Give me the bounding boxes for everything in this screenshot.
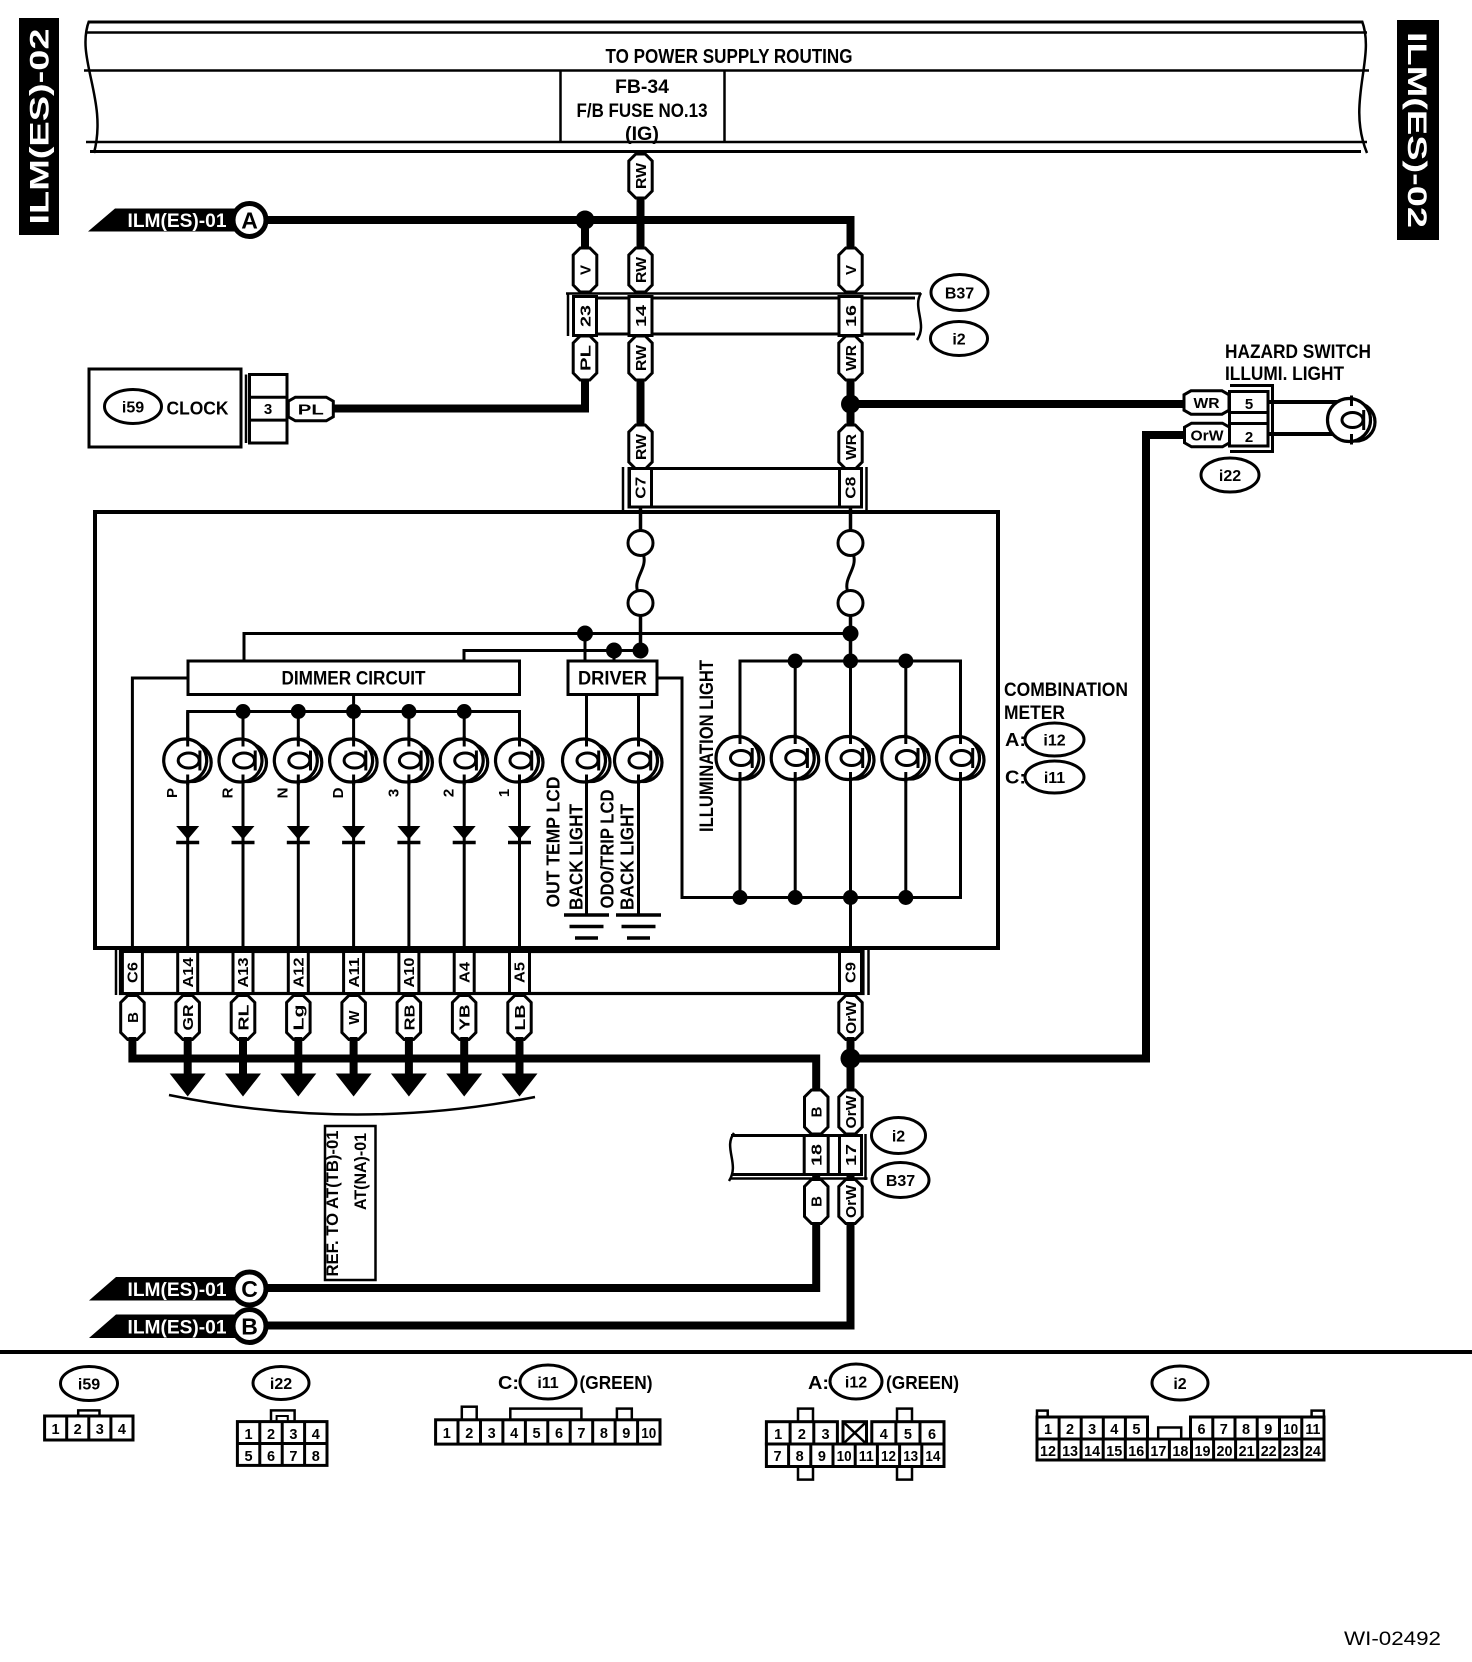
svg-text:9: 9 — [1264, 1422, 1272, 1438]
wire black bus to ILM(ES)-01 C — [132, 1037, 816, 1093]
connector i2 pinout — [1037, 1411, 1324, 1460]
wire YB stub — [462, 994, 466, 999]
wire dimmer lamp column D — [352, 712, 355, 954]
svg-text:ILLUMI. LIGHT: ILLUMI. LIGHT — [1225, 363, 1344, 385]
pin C7 — [630, 469, 652, 508]
wire left break column — [639, 507, 643, 531]
pin C9 — [840, 952, 862, 994]
wire right break column — [849, 507, 853, 531]
junction A/V — [576, 211, 595, 230]
wire illumination lamp column 905.8 — [904, 661, 907, 898]
svg-text:WI-02492: WI-02492 — [1344, 1629, 1441, 1650]
svg-text:16: 16 — [843, 305, 860, 327]
svg-text:F/B FUSE NO.13: F/B FUSE NO.13 — [577, 101, 708, 122]
connector i11 pinout — [436, 1407, 660, 1444]
ground out temp LCD — [564, 915, 609, 938]
wire label RB below band — [397, 996, 421, 1040]
svg-text:B: B — [241, 1314, 258, 1340]
wire RB stub — [407, 994, 411, 999]
wire label RW to pin 14 — [629, 248, 652, 292]
wire driver to LCD lamp 2 — [637, 695, 640, 916]
svg-text:PL: PL — [298, 402, 324, 419]
wire label V to pin 16 — [839, 248, 862, 292]
svg-text:13: 13 — [1062, 1444, 1078, 1460]
svg-text:17: 17 — [843, 1144, 860, 1166]
svg-text:8: 8 — [312, 1449, 320, 1465]
svg-text:OUT TEMP LCD: OUT TEMP LCD — [543, 777, 563, 908]
svg-text:FB-34: FB-34 — [615, 77, 669, 98]
svg-text:(GREEN): (GREEN) — [886, 1372, 959, 1393]
svg-text:LB: LB — [512, 1004, 529, 1030]
svg-text:i2: i2 — [892, 1128, 905, 1145]
svg-text:5: 5 — [904, 1427, 912, 1443]
svg-text:5: 5 — [1132, 1422, 1140, 1438]
svg-text:4: 4 — [1110, 1422, 1118, 1438]
wire RW from fuse FB-34 — [637, 150, 645, 158]
svg-text:21: 21 — [1239, 1444, 1255, 1460]
wire stub to driver 1 — [584, 634, 587, 662]
pin A14 — [178, 952, 198, 994]
svg-text:20: 20 — [1217, 1444, 1233, 1460]
wire label V to pin 23 — [573, 248, 597, 292]
wire dimmer lamp column P — [186, 712, 189, 954]
wire WR break to illumination bus — [849, 615, 853, 663]
wire label WR below pin 16 — [839, 336, 862, 380]
svg-text:C:: C: — [498, 1372, 519, 1393]
svg-text:C: C — [241, 1276, 258, 1302]
ref box REF. TO AT(TB)-01 AT(NA)-01 — [324, 1126, 376, 1280]
svg-text:WR: WR — [1194, 395, 1220, 412]
driver — [568, 661, 657, 695]
connector band C6-A5/C9 — [116, 949, 869, 995]
svg-text:DRIVER: DRIVER — [578, 669, 647, 690]
svg-text:A13: A13 — [236, 958, 252, 988]
connector ref i12 pinout label — [830, 1364, 882, 1399]
svg-text:4: 4 — [312, 1427, 320, 1443]
svg-text:5: 5 — [1245, 396, 1253, 413]
svg-text:14: 14 — [1084, 1444, 1100, 1460]
lamp illumination 4 — [882, 734, 930, 783]
wire label WR to C8 — [839, 425, 862, 469]
lamp hazard switch illumination — [1328, 396, 1376, 445]
connector ref B37 top — [931, 275, 988, 311]
inline break right — [838, 531, 863, 616]
svg-text:15: 15 — [1106, 1444, 1122, 1460]
svg-text:6: 6 — [555, 1426, 563, 1442]
connector band B37/i2 (pins 23/14/16) — [566, 293, 921, 340]
wire bus A to dimmer circuit — [244, 634, 851, 662]
svg-text:RW: RW — [633, 162, 650, 189]
lamp shift indicator P — [164, 736, 212, 785]
lamp shift indicator 1 — [496, 736, 544, 785]
svg-text:10: 10 — [1283, 1422, 1298, 1438]
band torn edge right — [917, 293, 921, 340]
wire label PL at clock — [288, 397, 333, 421]
svg-text:18: 18 — [809, 1144, 826, 1166]
svg-text:2: 2 — [74, 1422, 82, 1438]
wire RW break to driver bus — [639, 615, 643, 652]
svg-text:3: 3 — [1088, 1422, 1096, 1438]
svg-text:6: 6 — [1198, 1422, 1206, 1438]
wire stub to driver 2 — [613, 651, 616, 662]
pin C8 — [840, 469, 862, 508]
svg-text:ILLUMINATION LIGHT: ILLUMINATION LIGHT — [696, 660, 718, 832]
svg-text:14: 14 — [633, 304, 650, 327]
pin 16 — [839, 297, 862, 336]
pin A5 — [510, 952, 530, 994]
svg-text:1: 1 — [52, 1422, 60, 1438]
pin C6 — [122, 952, 142, 994]
wire dimmer lamp column N — [297, 712, 300, 954]
wire hazard pin 2 to bulb — [1268, 432, 1338, 436]
wire label RW to C7 — [629, 425, 652, 469]
lamp odo/trip LCD back light — [615, 736, 663, 785]
wire dimmer lamp bus — [188, 712, 520, 739]
connector i22 pinout — [237, 1410, 327, 1465]
svg-text:8: 8 — [796, 1449, 804, 1465]
wire label LB below band — [508, 996, 531, 1040]
connector ref i22 hazard — [1201, 458, 1259, 492]
combination meter box — [95, 512, 998, 948]
pin A13 — [233, 952, 253, 994]
page tab ILM(ES)-02 left — [19, 18, 59, 235]
dimmer circuit — [188, 661, 520, 695]
svg-text:WR: WR — [843, 434, 860, 460]
svg-text:1: 1 — [1044, 1422, 1052, 1438]
pin 17 — [840, 1136, 862, 1175]
wire A illumination feed — [266, 216, 849, 224]
svg-text:16: 16 — [1128, 1444, 1144, 1460]
svg-text:A:: A: — [808, 1372, 829, 1393]
svg-text:V: V — [843, 265, 860, 275]
svg-text:1: 1 — [443, 1426, 451, 1442]
svg-text:i12: i12 — [1043, 732, 1065, 749]
wire V left stub — [581, 220, 589, 252]
svg-text:A4: A4 — [457, 962, 473, 983]
wire dimmer lamp column 3 — [407, 712, 410, 954]
wire OrW stub below C9 — [849, 994, 853, 999]
svg-text:P: P — [164, 788, 181, 798]
svg-text:19: 19 — [1194, 1444, 1210, 1460]
svg-text:2: 2 — [1245, 429, 1253, 446]
hazard pin 5 — [1230, 392, 1269, 414]
wire illumination bottom bus — [740, 758, 961, 898]
wire arrow W to AT — [350, 1037, 358, 1076]
wire arrow LB to AT — [516, 1037, 524, 1076]
svg-text:3: 3 — [822, 1427, 830, 1443]
wire label WR at hazard — [1184, 391, 1229, 414]
diode D-P — [176, 826, 199, 843]
wire C8 column to C9 — [849, 898, 852, 954]
lamp illumination 2 — [771, 734, 819, 783]
svg-text:17: 17 — [1150, 1444, 1166, 1460]
svg-text:4: 4 — [880, 1427, 888, 1443]
wire PL from pin 23 — [581, 335, 589, 345]
svg-text:i59: i59 — [78, 1376, 100, 1393]
svg-text:23: 23 — [1283, 1444, 1299, 1460]
wire label RW below pin 14 — [629, 336, 652, 380]
wire label OrW above 17 — [839, 1090, 862, 1134]
svg-text:12: 12 — [881, 1449, 896, 1465]
svg-text:COMBINATION: COMBINATION — [1004, 680, 1128, 701]
wire label B above 18 — [805, 1090, 829, 1134]
wire hazard pin 5 to bulb — [1268, 400, 1338, 404]
lamp shift indicator 2 — [440, 736, 488, 785]
junction WR/hazard — [841, 395, 860, 414]
svg-text:YB: YB — [457, 1004, 474, 1030]
wire dimmer lamp column 1 — [518, 712, 521, 954]
svg-text:B37: B37 — [886, 1173, 915, 1190]
clock pin strip — [246, 375, 287, 444]
svg-text:TO POWER SUPPLY ROUTING: TO POWER SUPPLY ROUTING — [606, 45, 853, 68]
svg-text:RL: RL — [235, 1005, 252, 1031]
page tab ILM(ES)-02 right — [1397, 20, 1439, 240]
wire bus B to dimmer circuit — [464, 651, 641, 662]
svg-text:B: B — [809, 1106, 826, 1117]
lamp shift indicator N — [274, 736, 322, 785]
svg-text:10: 10 — [641, 1426, 656, 1442]
label COMBINATION METER — [1004, 680, 1128, 724]
svg-text:5: 5 — [245, 1449, 253, 1465]
svg-text:9: 9 — [622, 1426, 630, 1442]
connector band C7/C8 — [623, 467, 867, 512]
wire LB stub — [518, 994, 522, 999]
svg-text:C7: C7 — [634, 477, 650, 499]
diode D-3 — [397, 826, 420, 843]
svg-text:ILM(ES)-01: ILM(ES)-01 — [128, 211, 227, 232]
wire label RW fuse drop — [629, 154, 652, 198]
inline break left — [628, 531, 653, 616]
svg-text:1: 1 — [774, 1427, 782, 1443]
svg-text:9: 9 — [818, 1449, 826, 1465]
svg-text:OrW: OrW — [843, 1095, 860, 1129]
svg-text:23: 23 — [577, 305, 594, 327]
svg-text:(GREEN): (GREEN) — [580, 1372, 653, 1393]
wire label W below band — [342, 996, 366, 1040]
svg-text:7: 7 — [289, 1449, 297, 1465]
wire driver to LCD lamp 1 — [585, 695, 588, 916]
wire arrow YB to AT — [460, 1037, 468, 1076]
svg-text:OrW: OrW — [843, 1000, 860, 1034]
wire arrow RB to AT — [405, 1037, 413, 1076]
svg-text:2: 2 — [798, 1427, 806, 1443]
wire label GR below band — [176, 996, 200, 1040]
svg-text:1: 1 — [245, 1427, 253, 1443]
svg-text:CLOCK: CLOCK — [167, 398, 230, 419]
wire RW to connector pin 14 — [637, 194, 645, 252]
svg-text:BACK LIGHT: BACK LIGHT — [566, 804, 586, 910]
svg-text:Lg: Lg — [291, 1005, 308, 1031]
svg-text:1: 1 — [496, 789, 513, 797]
wire dimmer lamp column 2 — [463, 712, 466, 954]
svg-text:13: 13 — [903, 1449, 918, 1465]
svg-text:N: N — [275, 788, 292, 799]
svg-text:PL: PL — [577, 345, 594, 371]
svg-text:ILM(ES)-01: ILM(ES)-01 — [128, 1280, 227, 1301]
wire B pin18 to flag C — [264, 1175, 816, 1289]
svg-text:WR: WR — [843, 345, 860, 371]
pin A11 — [344, 952, 364, 994]
lamp out temp LCD back light — [563, 736, 611, 785]
svg-text:7: 7 — [1220, 1422, 1228, 1438]
svg-text:A5: A5 — [513, 962, 529, 983]
connector ref i12 meter — [1025, 723, 1084, 756]
svg-text:i59: i59 — [122, 399, 144, 416]
svg-text:DIMMER CIRCUIT: DIMMER CIRCUIT — [282, 669, 426, 690]
svg-text:B: B — [125, 1012, 142, 1023]
wire label OrW below C9 — [839, 996, 862, 1040]
svg-text:V: V — [577, 265, 594, 275]
svg-text:i22: i22 — [1219, 468, 1241, 485]
wire illumination lamp column 795.2 — [794, 661, 797, 898]
svg-text:3: 3 — [289, 1427, 297, 1443]
arrow group curve — [169, 1095, 535, 1115]
wire label OrW below 17 — [839, 1180, 862, 1224]
svg-text:4: 4 — [118, 1422, 126, 1438]
wire V right stub — [847, 220, 851, 252]
wire dimmer lamp column R — [242, 712, 245, 954]
svg-text:GR: GR — [180, 1004, 197, 1030]
wire label B below band — [121, 996, 145, 1040]
fuse FB-34 box — [561, 71, 725, 146]
svg-text:C:: C: — [1005, 767, 1026, 788]
flag ILM(ES)-01 C — [89, 1272, 266, 1305]
wire arrow Lg to AT — [294, 1037, 302, 1076]
connector ref i59 clock — [105, 390, 162, 424]
svg-text:11: 11 — [859, 1449, 874, 1465]
diode D-1 — [508, 826, 531, 843]
svg-text:RW: RW — [633, 344, 650, 371]
svg-text:A12: A12 — [292, 958, 308, 988]
svg-text:6: 6 — [928, 1427, 936, 1443]
svg-text:i22: i22 — [270, 1376, 292, 1393]
wire OrW hazard to meter bus — [853, 435, 1184, 1059]
lamp shift indicator 3 — [385, 736, 433, 785]
svg-text:11: 11 — [1305, 1422, 1320, 1438]
svg-text:24: 24 — [1305, 1444, 1321, 1460]
svg-text:2: 2 — [441, 789, 458, 797]
svg-text:A:: A: — [1005, 729, 1026, 750]
svg-text:ILM(ES)-01: ILM(ES)-01 — [128, 1318, 227, 1339]
connector ref i11 meter — [1025, 761, 1084, 793]
connector ref i2 bottom — [872, 1118, 926, 1154]
label OUT TEMP LCD BACK LIGHT — [543, 777, 586, 911]
wire illumination top bus — [740, 661, 961, 758]
svg-text:RW: RW — [633, 256, 650, 283]
lamp shift indicator D — [330, 736, 378, 785]
svg-text:OrW: OrW — [843, 1184, 860, 1218]
connector band i2/B37 (pins 18/17) — [731, 1134, 868, 1180]
hazard pin gap — [1230, 413, 1269, 424]
svg-text:C9: C9 — [844, 962, 860, 983]
wire label PL below pin 23 — [573, 336, 597, 380]
pin A10 — [399, 952, 419, 994]
svg-text:A14: A14 — [181, 958, 197, 988]
diode D-D — [342, 826, 365, 843]
label ODO/TRIP LCD BACK LIGHT — [597, 789, 637, 910]
svg-text:i11: i11 — [1044, 770, 1065, 787]
svg-text:B37: B37 — [945, 285, 974, 302]
svg-text:RW: RW — [633, 433, 650, 460]
svg-text:10: 10 — [837, 1449, 852, 1465]
clock i59 — [89, 369, 241, 447]
lamp illumination 3 — [827, 734, 875, 783]
svg-text:C8: C8 — [844, 477, 860, 499]
connector i12 pinout — [766, 1409, 944, 1480]
connector ref i11 pinout label — [520, 1365, 576, 1399]
wire label RL below band — [231, 996, 255, 1040]
wire label B below 18 — [805, 1180, 829, 1224]
junction OrW bus — [841, 1049, 861, 1069]
connector ref B37 bottom — [872, 1163, 929, 1198]
wire driver to illumination bottom bus — [657, 678, 740, 898]
svg-text:i2: i2 — [952, 331, 965, 348]
wire label OrW at hazard — [1185, 423, 1230, 447]
lamp illumination 5 — [937, 734, 985, 783]
svg-text:HAZARD SWITCH: HAZARD SWITCH — [1225, 341, 1371, 363]
diode D-2 — [453, 826, 476, 843]
svg-text:i11: i11 — [537, 1375, 558, 1392]
pin A12 — [288, 952, 308, 994]
svg-text:3: 3 — [385, 789, 402, 797]
svg-text:B: B — [809, 1196, 826, 1207]
svg-text:4: 4 — [510, 1426, 518, 1442]
wire B stub — [130, 994, 134, 999]
svg-text:14: 14 — [925, 1449, 940, 1465]
svg-text:i2: i2 — [1173, 1376, 1186, 1393]
svg-text:6: 6 — [267, 1449, 275, 1465]
svg-text:R: R — [219, 787, 236, 798]
diode D-R — [232, 826, 255, 843]
svg-text:12: 12 — [1040, 1444, 1056, 1460]
wire Lg stub — [296, 994, 300, 999]
svg-text:ODO/TRIP LCD: ODO/TRIP LCD — [597, 789, 617, 908]
connector ref i59 pinout label — [61, 1367, 118, 1401]
wire label Lg below band — [287, 996, 311, 1040]
wire W stub — [352, 994, 356, 999]
wire PL down to clock — [329, 377, 585, 409]
svg-text:i12: i12 — [845, 1374, 867, 1391]
svg-text:(IG): (IG) — [625, 124, 659, 145]
svg-text:A10: A10 — [402, 958, 418, 988]
svg-text:OrW: OrW — [1191, 428, 1225, 445]
svg-text:3: 3 — [96, 1422, 104, 1438]
wire dimmer box to lamp bus — [352, 695, 355, 712]
svg-text:BACK LIGHT: BACK LIGHT — [617, 804, 637, 910]
svg-text:5: 5 — [533, 1426, 541, 1442]
diode D-N — [287, 826, 310, 843]
lamp shift indicator R — [219, 736, 267, 785]
svg-text:8: 8 — [1242, 1422, 1250, 1438]
svg-text:REF. TO AT(TB)-01: REF. TO AT(TB)-01 — [324, 1131, 342, 1277]
svg-text:A11: A11 — [347, 958, 363, 988]
flag ILM(ES)-01 A — [88, 204, 266, 237]
svg-text:7: 7 — [773, 1449, 781, 1465]
wire WR to hazard switch — [851, 400, 1185, 408]
connector ref i2 pinout label — [1152, 1366, 1208, 1400]
pin 23 — [574, 297, 597, 336]
svg-text:ILM(ES)-02: ILM(ES)-02 — [1402, 32, 1432, 228]
footer separator — [0, 1350, 1472, 1354]
wire dimmer circuit to C6 — [132, 678, 188, 953]
svg-text:D: D — [330, 787, 347, 798]
wire OrW pin17 to flag B — [264, 1175, 851, 1326]
svg-text:METER: METER — [1004, 703, 1065, 724]
svg-text:7: 7 — [577, 1426, 585, 1442]
svg-text:2: 2 — [1066, 1422, 1074, 1438]
svg-text:C6: C6 — [126, 962, 142, 983]
svg-text:W: W — [346, 1010, 363, 1025]
